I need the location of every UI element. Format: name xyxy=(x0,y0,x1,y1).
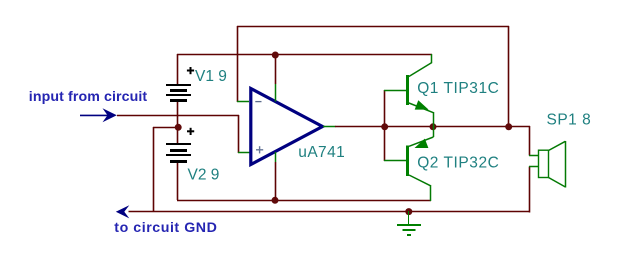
op-amp U1 xyxy=(251,54,336,200)
op-amp V- pin xyxy=(275,152,277,162)
junction emitters xyxy=(430,123,437,130)
Q1 collector xyxy=(409,63,432,77)
wire midpoint riser to ground bus xyxy=(153,127,155,212)
wire non-inverting input stub xyxy=(238,152,250,154)
junction ground xyxy=(405,208,412,215)
junction op-amp V+ pin xyxy=(272,52,279,59)
wire input riser xyxy=(238,115,240,153)
wire ground bus xyxy=(129,211,531,213)
wire V+ rail xyxy=(177,54,432,56)
wire speaker top lead xyxy=(529,126,531,156)
ground xyxy=(397,211,421,235)
Q2 emitter arrow xyxy=(415,139,429,148)
speaker cone xyxy=(549,141,566,150)
wire midpoint horizontal xyxy=(153,127,178,129)
input arrow xyxy=(80,108,117,122)
Q2 collector xyxy=(409,175,431,186)
Q1 emitter arrow xyxy=(415,100,429,109)
op-amp output stub xyxy=(323,126,336,128)
junction output-base xyxy=(381,123,388,130)
transistor Q1 xyxy=(384,54,434,127)
wire negative supply xyxy=(177,200,431,202)
wire V1 top lead xyxy=(177,54,179,84)
wire input xyxy=(117,115,239,117)
Q1 base stub xyxy=(384,90,406,92)
transistor Q2 xyxy=(384,126,434,201)
Q2 emitter xyxy=(433,126,435,137)
wire inverting input stub xyxy=(237,101,249,103)
wire speaker bottom lead xyxy=(529,167,531,213)
op-amp minus marker xyxy=(255,101,261,103)
Q1 base bar xyxy=(406,75,409,105)
wire V2 bottom lead xyxy=(177,163,179,200)
junction output-feedback xyxy=(505,123,512,130)
GND arrow xyxy=(116,205,130,218)
speaker terminals xyxy=(529,155,539,157)
speaker box xyxy=(539,150,549,177)
svg-text:SP1 8: SP1 8 xyxy=(547,111,592,128)
plus marker V1 xyxy=(187,67,194,74)
wire op-amp output to speaker xyxy=(335,126,530,128)
speaker SP1 xyxy=(529,141,566,188)
wire feedback right riser xyxy=(508,26,510,127)
svg-text:uA741: uA741 xyxy=(298,144,345,161)
wire base riser xyxy=(384,90,386,161)
svg-text:V2 9: V2 9 xyxy=(188,167,220,184)
svg-text:Q2 TIP32C: Q2 TIP32C xyxy=(417,155,499,172)
Q1 emitter xyxy=(409,103,434,113)
battery V2 xyxy=(166,143,191,163)
wire V1 bottom lead to V2 top xyxy=(177,102,179,143)
Q2 base stub xyxy=(384,160,406,162)
battery V1 xyxy=(166,84,191,102)
junction battery midpoint xyxy=(175,124,182,131)
wire feedback left riser xyxy=(237,26,239,102)
Q2 base bar xyxy=(406,146,409,177)
op-amp plus marker xyxy=(256,146,263,153)
svg-text:Q1 TIP31C: Q1 TIP31C xyxy=(417,80,499,97)
junction op-amp V- pin xyxy=(272,197,279,204)
op-amp V+ pin xyxy=(275,54,277,84)
plus marker V2 xyxy=(187,128,194,135)
svg-text:to circuit GND: to circuit GND xyxy=(114,220,217,236)
wire feedback top xyxy=(237,26,509,28)
svg-text:V1 9: V1 9 xyxy=(195,68,227,85)
svg-text:input from circuit: input from circuit xyxy=(29,89,148,105)
